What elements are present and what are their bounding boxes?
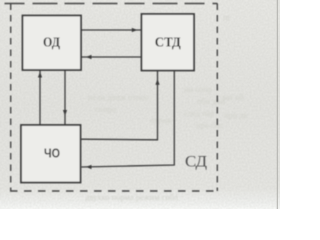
svg-text:пели движ относ: пели движ относ (88, 92, 149, 102)
arrowhead into ОД (38, 72, 42, 78)
paper background (0, 0, 280, 209)
svg-text:СТД: СТД (155, 36, 181, 51)
arrowhead into ОД (86, 55, 92, 59)
svg-text:про снс: про снс (196, 120, 223, 130)
svg-text:ват об: ват об (222, 92, 244, 102)
wire ЧО to ОД (left vertical) (39, 70, 41, 125)
svg-text:двухко норма режим собл: двухко норма режим собл (85, 192, 179, 202)
dashed system boundary СД : bottom edge (10, 190, 217, 192)
svg-text:СД: СД (185, 154, 207, 171)
block ЧО (21, 125, 81, 183)
page edge line (right) (276, 0, 278, 209)
dashed system boundary СД : top edge (5, 3, 218, 5)
svg-text:про дв: про дв (224, 110, 248, 120)
svg-text:ОД: ОД (43, 35, 60, 50)
svg-text:след näp: след näp (184, 108, 214, 118)
svg-text:ни сопр: ни сопр (184, 84, 212, 94)
arrowhead into СТД bottom (155, 79, 159, 85)
arrowhead into ЧО right side (86, 165, 92, 169)
dashed system boundary СД : left edge (10, 4, 12, 192)
arrowhead into СТД (132, 28, 138, 32)
wire СТД to ЧО (L-shaped) (82, 71, 175, 168)
svg-text:сопро: сопро (95, 104, 116, 114)
block СТД (142, 14, 195, 71)
faint bleed-through ghost text (decorative scan artifacts) (85, 12, 248, 202)
arrowhead into ЧО (63, 110, 67, 116)
svg-text:отраж: отраж (150, 115, 172, 125)
wire СТД to ОД (lower horizontal) (81, 56, 141, 58)
svg-text:пг: пг (223, 12, 232, 22)
wire ОД to ЧО (right vertical) (64, 70, 66, 125)
block ОД (23, 16, 82, 71)
wire ЧО to СТД (L-shaped) (81, 71, 158, 140)
wire ОД to СТД (top horizontal) (81, 29, 141, 31)
dashed system boundary СД : right edge (216, 4, 218, 192)
svg-text:ЧО: ЧО (44, 146, 60, 161)
